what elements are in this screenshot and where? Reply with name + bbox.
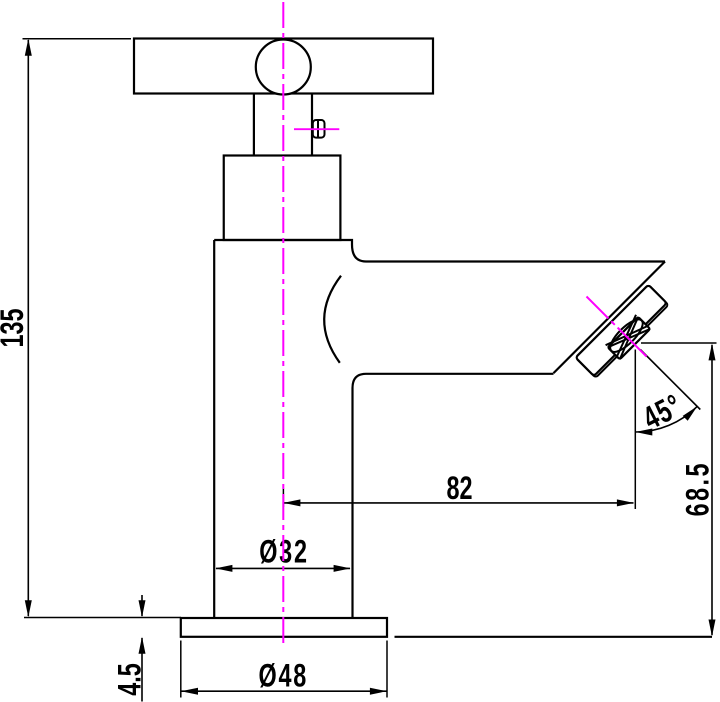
- aerator cross line 2: [608, 317, 650, 359]
- aerator assembly: [576, 285, 672, 381]
- screw centerline magenta: [294, 128, 339, 130]
- svg-text:4.5: 4.5: [111, 663, 148, 696]
- dimension 68.5: [711, 345, 713, 635]
- handle circle: [256, 40, 311, 95]
- diagonal centerline magenta: [587, 297, 647, 357]
- body and spout outline: [214, 240, 665, 262]
- handle bar: [134, 39, 433, 94]
- dimension O48: [182, 690, 387, 692]
- aerator housing outer rim: [576, 285, 669, 378]
- deck line: [395, 636, 713, 638]
- dimension 4.5 lower arrow: [141, 638, 143, 702]
- dimension 82: [284, 502, 634, 504]
- aerator housing: [576, 285, 667, 376]
- dimension line 135: [27, 40, 29, 616]
- svg-text:135: 135: [0, 308, 30, 347]
- spout cut edge 45deg: [554, 262, 666, 374]
- dimension O48 extension lines: [180, 641, 182, 698]
- stem left wire: [253, 94, 255, 156]
- dimension O32: [216, 567, 350, 569]
- aerator cross line 3: [606, 315, 648, 357]
- spout bottom and body right wire: [353, 374, 554, 618]
- svg-text:68.5: 68.5: [679, 461, 716, 516]
- dimension 135 extension line bottom: [24, 617, 181, 619]
- screw detail: [313, 120, 325, 138]
- dimension 82 ext stub at centerline: [282, 489, 284, 508]
- aerator insert: [608, 317, 650, 359]
- aerator ellipse: [606, 315, 648, 357]
- svg-text:Ø48: Ø48: [258, 656, 308, 693]
- angle 45 ray: [640, 350, 700, 410]
- bonnet: [224, 156, 341, 241]
- dimension 4.5 upper arrow: [141, 595, 143, 616]
- dimension 135 extension line top: [23, 38, 132, 40]
- svg-text:82: 82: [446, 469, 472, 506]
- aerator cross line 1: [608, 317, 650, 359]
- dimension 82 right extension: [634, 350, 636, 510]
- base flange: [181, 618, 387, 637]
- vertical centerline magenta: [282, 2, 284, 643]
- spout body transition curve: [324, 276, 341, 363]
- dimension 68.5 top extension line: [641, 342, 717, 344]
- body left wire: [213, 240, 215, 618]
- angle 45 arc: [635, 406, 697, 432]
- stem right wire: [311, 94, 313, 156]
- aerator cross line 4: [606, 315, 648, 357]
